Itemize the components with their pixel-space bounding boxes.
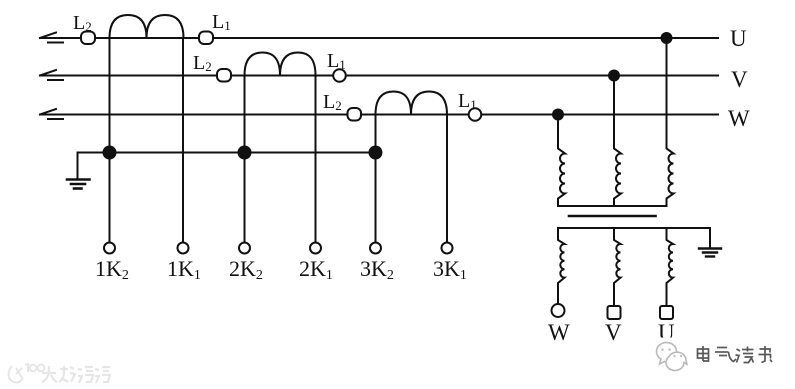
junction: U line to VT phase A — [661, 32, 673, 44]
arrow on U line — [40, 33, 63, 43]
watermark bottom-left: K100 da shu kua jing — [9, 364, 110, 383]
wire: CT3 secondary lead 3K1 — [446, 115, 448, 243]
terminal 2K2 — [239, 243, 250, 254]
terminal w (VT secondary) — [552, 304, 565, 317]
svg-text:1K2: 1K2 — [95, 256, 129, 283]
VT primary winding (U phase) — [667, 38, 674, 206]
wire: CT2 secondary lead 2K1 — [315, 76, 317, 243]
terminal L1 of CT3 — [469, 108, 482, 121]
svg-text:L1: L1 — [327, 50, 346, 72]
junction: bus and 2K2 lead — [238, 146, 252, 160]
VT core — [569, 215, 656, 218]
VT secondary winding (U phase) — [667, 228, 674, 306]
junction: W line to VT phase C — [552, 109, 564, 121]
terminal 1K1 — [178, 243, 189, 254]
wire: phase line W — [40, 114, 718, 116]
terminal 3K2 — [370, 243, 381, 254]
terminal u (VT secondary) — [660, 306, 673, 319]
svg-text:3K1: 3K1 — [433, 256, 467, 283]
svg-text:U: U — [730, 26, 747, 51]
svg-text:V: V — [731, 67, 748, 92]
watermark halo (white glow over lower-right) — [645, 338, 699, 374]
svg-text:1K1: 1K1 — [167, 256, 201, 283]
svg-text:W: W — [728, 106, 750, 131]
terminal L2 of CT1 — [81, 32, 95, 45]
VT primary winding (W phase) — [558, 115, 565, 207]
terminal 1K2 — [104, 243, 115, 254]
wire: CT1 secondary lead 1K1 — [182, 38, 184, 243]
junction: V line to VT phase B — [608, 70, 620, 82]
wire: CT3 secondary lead 3K2 — [375, 115, 377, 243]
wire: VT primary star bus — [558, 205, 667, 207]
terminal v (VT secondary) — [608, 306, 621, 319]
svg-text:W: W — [548, 320, 570, 345]
svg-text:3K2: 3K2 — [360, 256, 394, 283]
svg-text:L1: L1 — [458, 90, 477, 112]
svg-text:2K2: 2K2 — [229, 256, 263, 283]
svg-text:L2: L2 — [323, 91, 342, 113]
wire: phase line U — [40, 37, 718, 39]
VT secondary winding (W phase) — [558, 228, 565, 304]
CT1 primary winding humps — [110, 15, 184, 38]
CT2 primary winding humps — [245, 53, 316, 76]
watermark logo: chat bubbles — [657, 342, 688, 370]
svg-text:V: V — [605, 320, 622, 345]
wire: CT1 secondary lead 1K2 — [109, 38, 111, 243]
wire: grounded secondary common bus — [78, 152, 376, 154]
VT primary winding (V phase) — [614, 76, 621, 207]
ground (right, VT secondary) — [699, 228, 721, 257]
terminal L2 of CT2 — [217, 69, 231, 82]
arrow on V line — [40, 70, 63, 80]
svg-text:L1: L1 — [212, 11, 231, 33]
wire: CT2 secondary lead 2K2 — [244, 76, 246, 243]
svg-text:L2: L2 — [193, 52, 212, 74]
arrow on W line — [40, 109, 63, 119]
watermark text: dian qi du shu — [698, 346, 773, 363]
ground (left, CT secondary bus) — [67, 153, 90, 189]
svg-text:L2: L2 — [73, 12, 92, 34]
terminal L1 of CT2 — [333, 69, 346, 82]
terminal 3K1 — [442, 243, 453, 254]
junction: bus and 1K2 lead — [103, 146, 117, 160]
terminal L1 of CT1 — [199, 32, 213, 45]
wire: phase line V — [40, 75, 718, 77]
CT3 primary winding humps — [376, 92, 448, 115]
VT secondary winding (V phase) — [614, 228, 621, 306]
svg-text:2K1: 2K1 — [299, 256, 333, 283]
terminal 2K1 — [310, 243, 321, 254]
terminal L2 of CT3 — [348, 108, 362, 121]
wire: VT secondary bus — [558, 227, 710, 229]
junction: bus and 3K2 lead — [369, 146, 383, 160]
